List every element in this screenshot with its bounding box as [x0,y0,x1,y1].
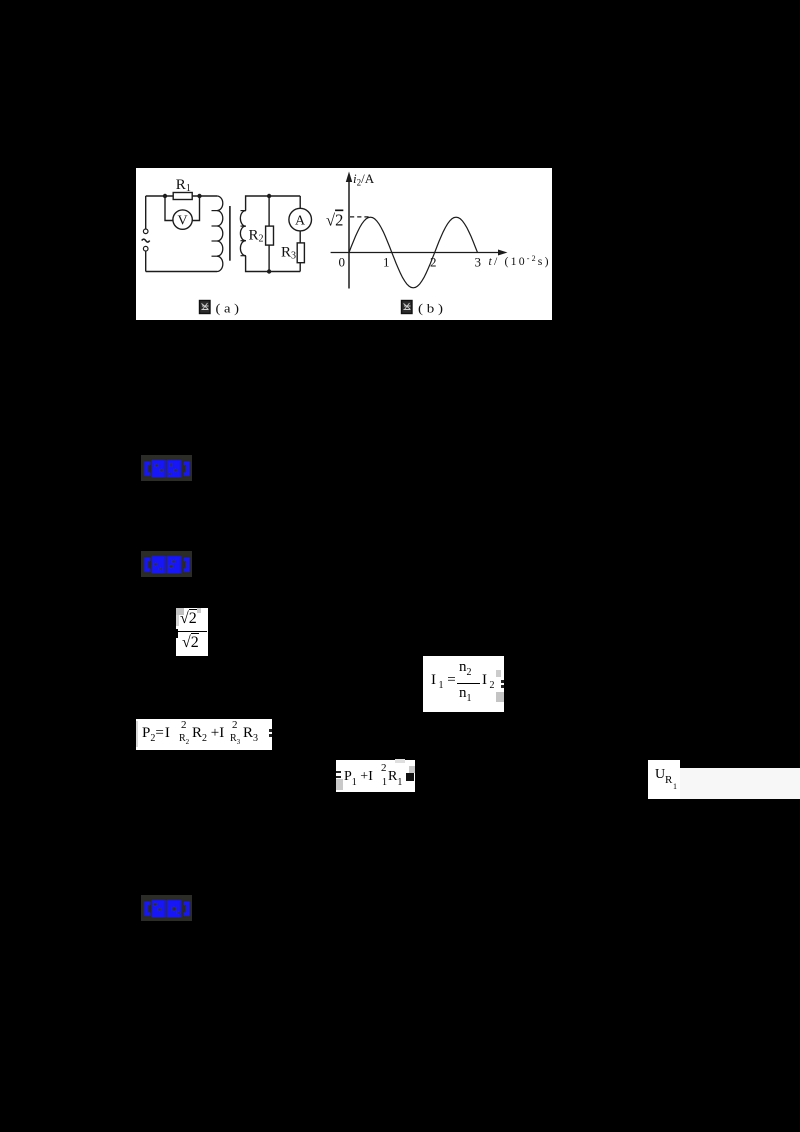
svg-text:( b ): ( b ) [418,301,443,316]
svg-text:R3: R3 [281,244,296,261]
resistor R2 [266,226,274,245]
transformer core [229,206,231,261]
wire primary bottom [146,271,217,273]
wire voltmeter left [165,196,173,221]
AC source terminal top [143,229,148,234]
svg-text:V: V [178,214,188,229]
wire primary left [145,196,147,229]
node right of R1 [197,194,201,198]
primary coil hook 1 [212,210,218,212]
header band 2 [141,551,193,578]
node left of R1 [163,194,167,198]
formula image P2 = I^2R2 R2 + I^2R3 R3 [136,719,272,750]
svg-text:2: 2 [430,255,437,270]
x axis [331,252,502,254]
voltmeter U=V circle [173,210,192,229]
blue text 【分析】 [144,460,190,478]
secondary coil hook top [241,210,247,212]
dashed sqrt2 level [350,216,371,218]
transformer secondary coil [240,211,245,256]
wire R2 branch [268,196,270,272]
formula image P1+I1^2R1 [336,760,415,792]
formula image I1 = n2/n1 I2 [423,656,504,712]
header band 1 [141,455,193,482]
svg-text:i2/A: i2/A [353,171,375,188]
white strip after U_R1 [680,768,800,799]
primary coil hook 4 [212,255,218,257]
sine curve i2 [349,217,478,288]
svg-text:( a ): ( a ) [216,301,240,316]
svg-text:R1: R1 [176,177,191,194]
svg-text:3: 3 [475,255,482,270]
formula image U_R1 with white strip [648,760,680,799]
wire voltmeter right [192,196,199,221]
wire primary left lower [145,251,147,272]
x axis arrowhead [498,250,508,256]
y axis arrowhead [346,172,352,183]
svg-text:1: 1 [383,255,390,270]
resistor R3 [297,243,304,263]
node secondary top [267,194,271,198]
secondary coil hook mid1 [241,225,247,227]
svg-text:A: A [295,214,306,229]
caption glyph 图 (a) [200,301,211,314]
primary coil hook 2 [212,225,218,227]
secondary coil hook bottom [241,255,247,257]
svg-text:0: 0 [339,255,346,270]
blue text 【点评】 [144,900,190,918]
transformer primary coil [217,196,223,272]
svg-text:R2: R2 [249,227,264,244]
graph axes [331,176,502,289]
AC tilde symbol [142,239,150,242]
y axis [348,176,350,289]
caption glyph 图 (b) [402,301,413,314]
wire primary top [146,195,217,197]
secondary coil hook mid2 [241,240,247,242]
svg-text:t/ (10-2s): t/ (10-2s) [489,254,549,268]
formula image sqrt2 over sqrt2 [176,608,208,656]
wire secondary coil top lead [246,196,301,211]
node secondary bottom [267,269,271,273]
AC source terminal bottom [143,246,148,251]
primary coil hook 3 [212,240,218,242]
wire ammeter branch [299,196,301,272]
header band 3 [141,895,193,922]
blue text 【解答】 [144,556,190,574]
ammeter A circle [289,208,312,231]
resistor R1 [173,193,192,200]
svg-text:√2: √2 [326,211,343,230]
picture box: circuit 图(a) and graph 图(b) [136,168,552,320]
wire secondary coil bottom lead [246,256,301,272]
